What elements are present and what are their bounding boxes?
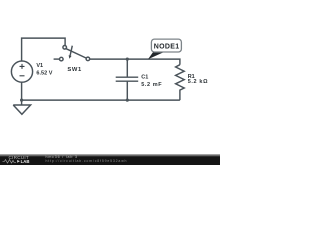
svg-text:V1: V1 <box>36 63 43 69</box>
svg-text:http://circuitlab.com/c8f59e53: http://circuitlab.com/c8f59e532awh <box>46 159 127 163</box>
svg-text:NODE1: NODE1 <box>154 43 179 50</box>
svg-text:5.2 kΩ: 5.2 kΩ <box>188 79 208 85</box>
svg-text:C1: C1 <box>141 75 148 81</box>
svg-text:5.2 mF: 5.2 mF <box>141 82 162 88</box>
svg-text:6.52 V: 6.52 V <box>36 71 52 77</box>
svg-text:SW1: SW1 <box>67 67 82 73</box>
svg-text:LAB: LAB <box>21 159 30 164</box>
